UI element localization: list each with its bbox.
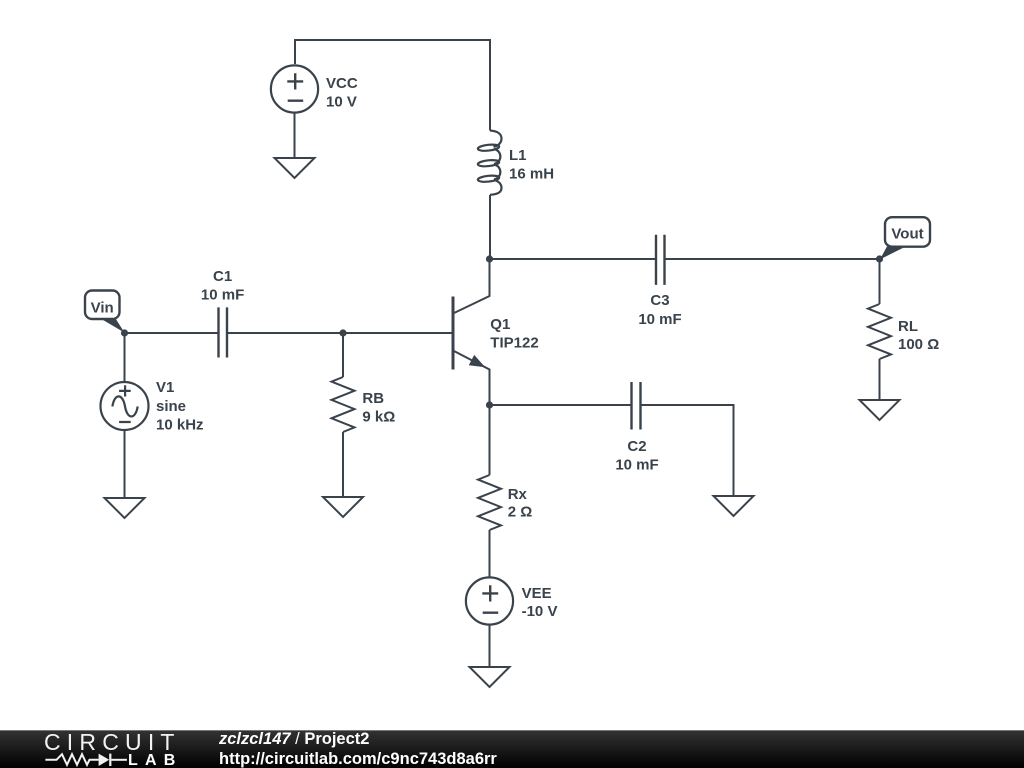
svg-text:10 kHz: 10 kHz: [156, 417, 204, 434]
svg-text:VEE: VEE: [522, 585, 552, 602]
svg-text:C3: C3: [650, 292, 669, 309]
svg-text:RB: RB: [362, 390, 384, 407]
svg-text:Vout: Vout: [891, 226, 923, 243]
svg-text:-10 V: -10 V: [522, 603, 558, 620]
svg-text:10 mF: 10 mF: [638, 311, 681, 328]
svg-text:sine: sine: [156, 398, 186, 415]
svg-text:100 Ω: 100 Ω: [898, 336, 939, 353]
svg-text:2 Ω: 2 Ω: [508, 504, 533, 521]
svg-text:L1: L1: [509, 147, 527, 164]
svg-text:C2: C2: [627, 438, 646, 455]
svg-text:16 mH: 16 mH: [509, 166, 554, 183]
svg-text:9 kΩ: 9 kΩ: [362, 409, 395, 426]
svg-text:10 mF: 10 mF: [201, 287, 244, 304]
svg-text:V1: V1: [156, 379, 174, 396]
svg-text:Q1: Q1: [490, 316, 510, 333]
svg-text:RL: RL: [898, 318, 918, 335]
svg-text:VCC: VCC: [326, 75, 358, 92]
svg-text:C1: C1: [213, 268, 232, 285]
svg-text:TIP122: TIP122: [490, 335, 538, 352]
svg-text:Rx: Rx: [508, 486, 528, 503]
svg-text:Vin: Vin: [91, 300, 114, 317]
svg-text:10 V: 10 V: [326, 94, 357, 111]
svg-text:10 mF: 10 mF: [615, 457, 658, 474]
